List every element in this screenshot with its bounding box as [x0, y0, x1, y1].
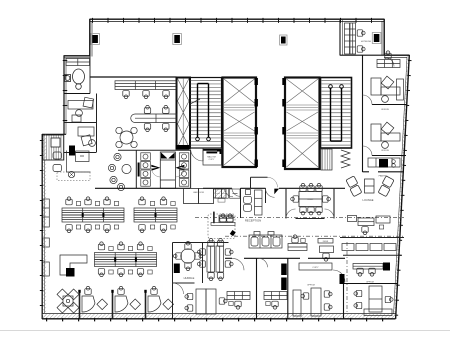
bank2 door jambs: [282, 78, 285, 167]
stair 1 rails: [198, 84, 209, 138]
booth left door jamb: [138, 163, 140, 177]
reception desk 2: [318, 239, 334, 253]
exterior wall: left x=64 (y 56..134) with ticks: [64, 56, 66, 135]
exterior wall: left x=42 (y 134..319) with ticks: [42, 134, 45, 319]
svg-text:LOUNGE: LOUNGE: [363, 198, 374, 202]
right zone mid desks: [348, 216, 391, 226]
black lintel above booth right column: [176, 145, 190, 150]
door arc near pantry: [225, 188, 234, 197]
bottom-right office interior: [364, 286, 392, 316]
svg-text:COPY: COPY: [312, 267, 319, 269]
bench row 1 upper-left: [115, 81, 176, 90]
office A (362..409 x 55..104): [377, 60, 400, 68]
svg-text:PANTRY: PANTRY: [379, 175, 388, 178]
desk cluster D (vertical, 205..225 x 244..272): [207, 246, 224, 272]
bank1 door jambs: [255, 78, 258, 167]
right zone office y 255..283: [343, 255, 402, 269]
restroom sink: [65, 75, 71, 82]
desk cluster C: [95, 253, 157, 267]
exterior wall: top-right vertical x=384 (y 20..55): [382, 19, 384, 56]
reception L-counter 2 with black box: [60, 255, 87, 275]
lobby exit door arc: [268, 177, 278, 187]
cubicle partition 1: [78, 290, 80, 319]
round table room (172..202 x 242..283): [173, 243, 229, 319]
bench row 2 upper-left (rounded left end): [131, 114, 177, 123]
office desk bottom-center-mid: [264, 292, 287, 300]
entry door with jamb wedge (265..286 y 188): [266, 188, 275, 197]
mail room (203..221,149..165): [203, 150, 222, 166]
sheet title-block faint line: [0, 330, 450, 332]
svg-text:RECEPTION: RECEPTION: [245, 219, 261, 223]
booth seats left column: [141, 153, 151, 186]
stair 1 up-arrow: [190, 99, 200, 104]
shaft hatch strip below stair2: [321, 149, 332, 170]
right offices: wall x=340 (y 20..55): [340, 20, 342, 56]
svg-text:OFFICE: OFFICE: [366, 282, 375, 284]
wall y=55 (x 340..384): [340, 54, 384, 56]
svg-text:CONF: CONF: [307, 199, 314, 201]
credenza above: [299, 263, 332, 270]
column (95,39): [91, 34, 100, 45]
wall y=242 segment (172..228): [173, 242, 229, 244]
stair 2 treads: [321, 78, 352, 149]
elevator bank 2: [282, 78, 319, 170]
dashed alignment lines: [195, 216, 404, 218]
svg-text:HUDDLE: HUDDLE: [184, 276, 195, 280]
elevator bank 1: [223, 78, 258, 168]
column (177,39): [173, 34, 182, 45]
admin station: desk + counter: [67, 151, 91, 173]
wall y=258 center offices top: [225, 257, 345, 259]
center-bottom office walls: [257, 258, 399, 318]
admin station: guest chairs: [53, 152, 62, 172]
cubicle 2 furniture: [115, 286, 141, 312]
workstation 2 upper-left wall: [78, 127, 95, 146]
bottom-center-right office interior: [293, 288, 321, 316]
workstation 1 upper-left wall: [68, 97, 94, 122]
office B (362..406 x 104..155): [371, 122, 400, 148]
round table cluster upper: [116, 127, 137, 147]
cubicle partition 2: [111, 290, 113, 319]
left wall cabinet column B: [43, 199, 50, 276]
booth central column: [160, 152, 175, 188]
dashed future-furniture zone with desk: [208, 212, 236, 239]
phone booth block (136..190 x 150..188): [136, 150, 190, 188]
waiting room (230..265 x 188..218): [244, 190, 263, 216]
svg-text:COPY: COPY: [209, 159, 215, 161]
stair 1 shaft (left): [177, 78, 191, 149]
corridor wall y=188: [95, 187, 345, 189]
column (376,38): [372, 33, 381, 44]
right offices: corridor wall x=362 (y 55..172): [362, 56, 364, 173]
door arc into waiting room: [232, 188, 240, 196]
corridor door arc below stair 1: [191, 149, 204, 162]
reception desk 1: [288, 244, 307, 251]
exterior wall: step y=55 (x 384..409): [384, 55, 410, 57]
svg-text:DESK: DESK: [323, 241, 329, 243]
copy counter row below wall y=188: [216, 189, 241, 198]
restroom right wall x=90 (y 56..93): [89, 56, 91, 94]
cubicle 3 furniture: [148, 286, 174, 312]
lounge chair circles: [108, 153, 131, 190]
interior wall y=77 (x 90..176): [90, 76, 177, 78]
exterior wall: right slanted (409,55)..(395,319) with ticks: [394, 55, 410, 319]
pantry room right (362..406 x 155..172): [368, 158, 400, 167]
desk cluster B (4 desks): [134, 208, 177, 222]
LAN / AV closets (183..213 x 188..204): [184, 189, 214, 204]
right zone: lounge armchairs: [346, 176, 394, 197]
desk cluster A (6 desks): [62, 208, 124, 222]
column (283,40): [280, 35, 287, 45]
svg-text:OFFICE: OFFICE: [307, 285, 316, 287]
top-right room desk strip: [345, 23, 356, 54]
restroom toilet: [73, 69, 85, 89]
restroom counter line y=93: [64, 93, 90, 95]
left shaft bay (hatched): [43, 135, 64, 160]
lobby corner jamb: [217, 149, 222, 154]
vestibule L-wall below bank1: [251, 176, 268, 178]
conference room (286..345 x 188..218): [286, 188, 334, 219]
zigzag below stair2: [341, 150, 350, 168]
office desk bottom-center-left: [227, 292, 250, 300]
exterior wall: step y=134 (x 42..64): [42, 133, 66, 135]
door arc into middle office: [259, 258, 268, 267]
restroom shelf: [66, 59, 90, 66]
exterior wall: top (with mullion ticks): [90, 19, 385, 21]
conference chairs: [300, 183, 306, 191]
svg-text:HOTELING: HOTELING: [361, 41, 372, 43]
door arc at corridor top: [385, 58, 394, 67]
exterior wall: step y=56 (x 63..90): [64, 56, 91, 58]
partition wall x=96.5: [96, 94, 98, 153]
wall y=104.5: [372, 104, 407, 106]
bottom-center office (172..230 x 283..318): [196, 289, 216, 314]
svg-text:LAN ROOM: LAN ROOM: [193, 191, 204, 194]
svg-text:OFFICE: OFFICE: [381, 150, 390, 152]
cubicle partition 3: [144, 290, 146, 319]
sofa row center: [249, 232, 282, 249]
booth seats right column: [179, 153, 189, 186]
office A side cabinet: [397, 79, 404, 100]
booth door wedges: [151, 165, 160, 171]
exterior wall: bottom band with hatch and ticks: [42, 314, 397, 320]
stair 2 rails: [331, 88, 342, 141]
black duct between offices: [281, 264, 287, 276]
exterior wall: top-left vertical at x=90: [90, 19, 92, 57]
wall y=150 (x 118..190): [118, 149, 191, 151]
stair 1 treads: [190, 78, 222, 149]
booth door arcs: [151, 168, 160, 177]
pantry counter: [214, 189, 227, 198]
conference table: [299, 192, 322, 207]
svg-text:OFFICE: OFFICE: [381, 109, 390, 111]
right zone cabinet row: [340, 238, 404, 251]
diamond meeting table: [57, 289, 79, 313]
cubicle 1 furniture: [82, 286, 108, 312]
left wall cabinet row A: [0, 0, 1, 1]
